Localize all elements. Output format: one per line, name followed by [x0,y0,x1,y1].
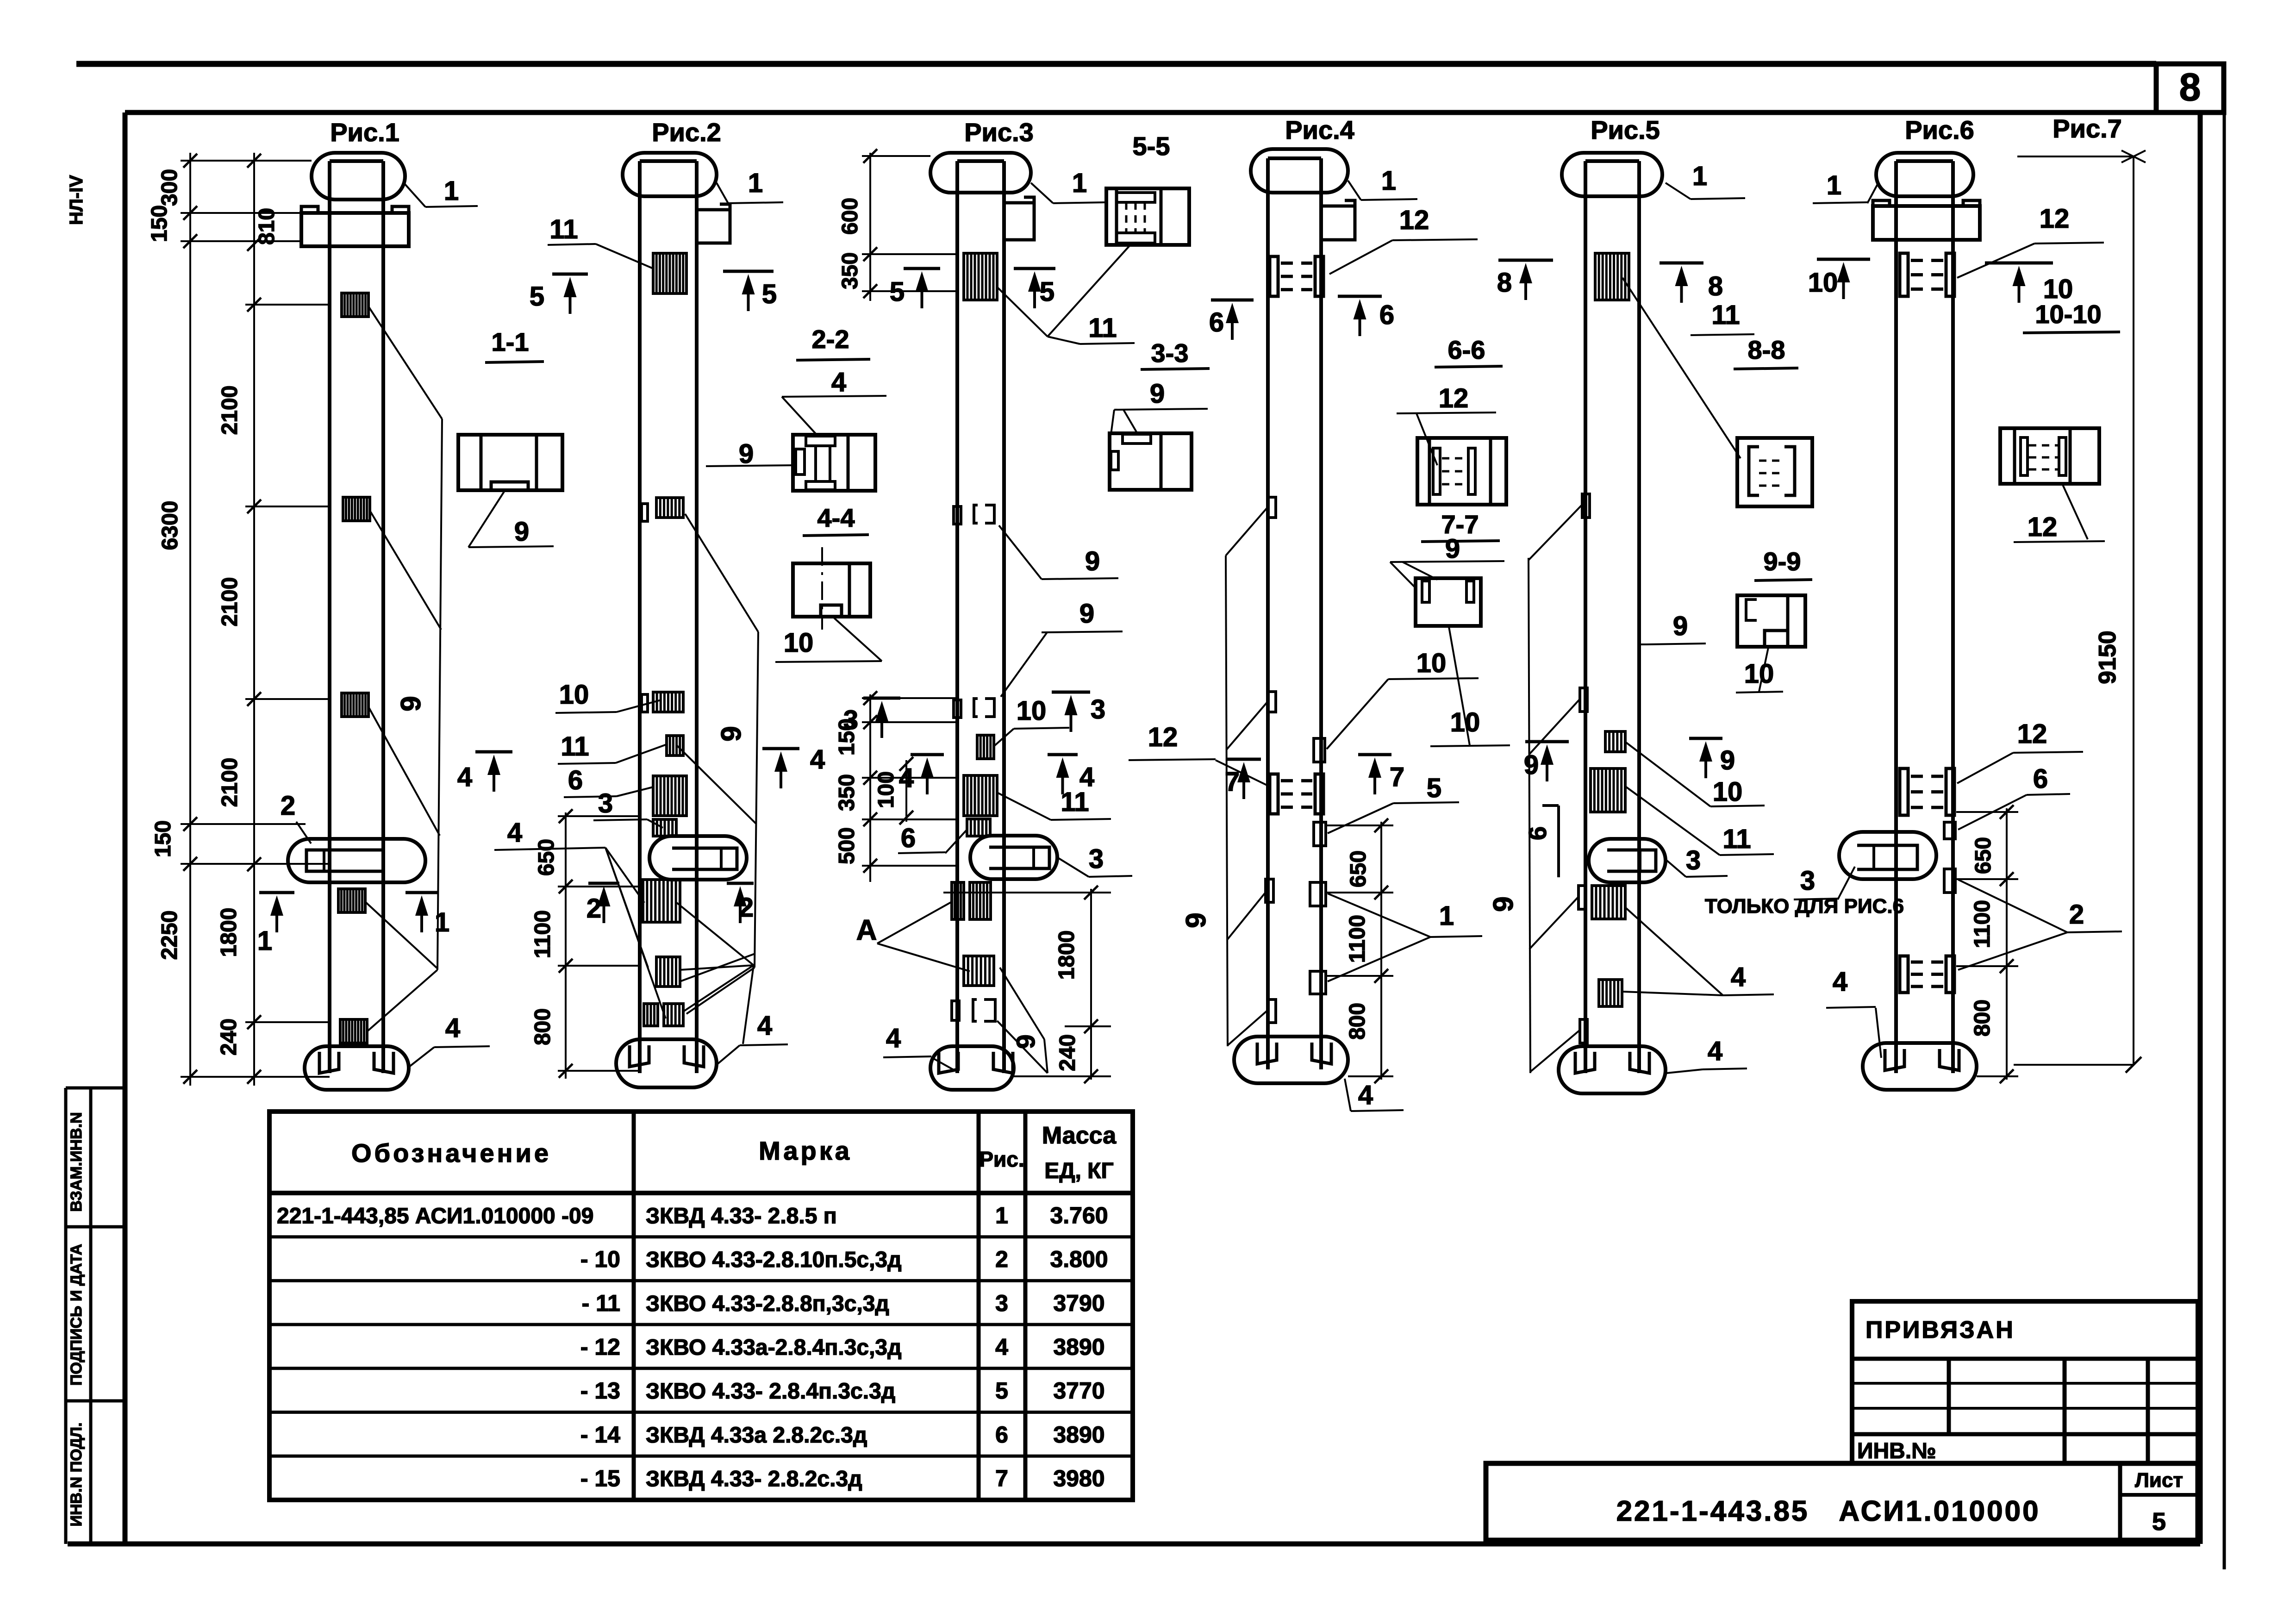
Ris.6 top joint 12 [1900,253,1908,296]
svg-text:100: 100 [874,771,898,808]
svg-text:350: 350 [835,774,859,811]
svg-text:7: 7 [995,1466,1008,1492]
svg-text:4: 4 [886,1023,901,1053]
Ris.5 top lifting loop [1562,153,1662,196]
svg-text:12: 12 [2017,719,2047,749]
overall dimension 9150 [2017,156,2134,157]
svg-text:Лист: Лист [2135,1469,2183,1492]
svg-text:4: 4 [1833,967,1847,997]
svg-text:3790: 3790 [1053,1290,1104,1316]
svg-text:4: 4 [831,367,846,397]
svg-text:9: 9 [1524,750,1539,780]
svg-text:3.800: 3.800 [1050,1246,1108,1272]
svg-text:ЗКВД 4.33- 2.8.2с.3д: ЗКВД 4.33- 2.8.2с.3д [646,1467,862,1492]
svg-text:Марка: Марка [759,1136,852,1165]
column Ris.5 body [1584,161,1587,1073]
svg-text:9: 9 [1150,379,1165,409]
svg-text:1: 1 [435,907,449,937]
Ris.6 middle joint 12 [1900,768,1908,815]
Ris.1 leader bundle 9 [437,419,442,970]
column Ris.2 body [638,161,642,1073]
svg-text:1: 1 [1072,168,1087,198]
Ris.3 lower hatch [964,956,994,986]
svg-text:1: 1 [257,926,272,956]
Ris.3 section marks 3 [863,697,900,700]
svg-text:ЗКВО 4.33-2.8.8п,3с,3д: ЗКВО 4.33-2.8.8п,3с,3д [646,1292,889,1316]
svg-text:9: 9 [716,726,747,741]
svg-text:1: 1 [995,1202,1008,1228]
svg-text:- 13: - 13 [580,1378,620,1404]
section detail 8-8 [1737,438,1812,506]
Ris.3 hatch 11 second [964,775,997,816]
svg-text:3: 3 [598,788,613,818]
Ris.4 top lifting loop [1251,149,1348,193]
Ris.3 top lifting loop [930,153,1031,193]
left marginal column [64,1088,68,1544]
svg-text:- 15: - 15 [580,1466,620,1492]
Ris.1 section marks 1 [259,891,294,894]
svg-text:ЗКВД 4.33а 2.8.2с.3д: ЗКВД 4.33а 2.8.2с.3д [646,1423,867,1448]
Ris.1 left dimension chain A [189,153,191,1086]
Ris.5 hatch 11 top [1595,253,1629,300]
svg-text:240: 240 [217,1018,241,1056]
svg-text:НЛ-IV: НЛ-IV [66,175,87,225]
Ris.5 lower hatch [1599,980,1622,1006]
svg-text:10: 10 [1808,268,1838,298]
Ris.4 right key below joint [1314,822,1326,846]
svg-text:8-8: 8-8 [1748,335,1785,364]
title strip [1486,1463,2198,1540]
svg-text:3890: 3890 [1053,1334,1104,1360]
svg-text:7: 7 [1390,762,1404,792]
svg-text:4: 4 [1358,1080,1373,1110]
svg-text:800: 800 [1345,1003,1370,1040]
svg-text:- 14: - 14 [580,1422,620,1448]
Ris.4 section marks 7 [1227,758,1261,761]
svg-text:10: 10 [559,680,589,710]
svg-text:9: 9 [1720,745,1735,775]
svg-text:2100: 2100 [218,577,242,627]
Ris.4 right keys 1 [1310,882,1326,906]
svg-text:ИНВ.№: ИНВ.№ [1857,1439,1936,1463]
svg-text:9: 9 [739,439,754,469]
svg-text:10: 10 [1744,659,1774,689]
svg-text:2: 2 [281,791,295,821]
Ris.2 mid hatch with key [656,498,683,518]
Ris.2 hatch 6 [653,776,686,816]
svg-text:ЗКВД 4.33- 2.8.5 п: ЗКВД 4.33- 2.8.5 п [646,1204,837,1228]
Ris.1 top corbel [301,213,409,246]
svg-text:11: 11 [561,731,589,762]
Ris.3 bottom bracket row [952,1001,959,1020]
svg-text:1: 1 [748,168,763,198]
svg-text:10: 10 [1416,648,1447,678]
parts table [269,1112,1133,1500]
column Ris.1 body [328,161,331,1073]
Ris.5 section marks 8 [1498,259,1553,262]
svg-text:9: 9 [1445,534,1460,564]
svg-text:800: 800 [530,1008,555,1045]
Ris.2 hatch 11 [653,253,686,294]
section detail 5-5 [1106,188,1189,245]
Ris.5 middle lifting loop [1589,839,1666,882]
svg-text:2100: 2100 [218,386,242,435]
svg-text:1: 1 [1381,166,1396,196]
Ris.2 section mark 4 right [762,747,799,750]
svg-text:12: 12 [2040,204,2070,234]
svg-text:2: 2 [739,893,754,923]
svg-text:9: 9 [1180,912,1211,928]
section detail 3-3 [1110,433,1192,490]
Ris.2 small hatch 11 [667,736,683,756]
Ris.5 below-ring hatch [1592,886,1625,919]
svg-text:11: 11 [549,214,578,244]
column Ris.6 body [1894,161,1898,1073]
svg-text:3-3: 3-3 [1151,338,1189,368]
svg-text:3770: 3770 [1053,1378,1104,1404]
svg-text:Рис.4: Рис.4 [1285,115,1354,144]
svg-text:650: 650 [1971,837,1996,874]
Ris.3 bracket row 1 [954,506,961,524]
svg-text:4: 4 [1731,962,1746,992]
svg-text:2: 2 [2069,899,2084,930]
Ris.4 left keys [1268,497,1276,518]
Ris.2 leader bundle 9 [755,632,758,968]
sheet top border [76,61,2156,67]
svg-text:3: 3 [995,1290,1008,1316]
Ris.4 leader bundle 9 [1226,556,1228,1046]
svg-text:ЗКВО 4.33-2.8.10п.5с,3д: ЗКВО 4.33-2.8.10п.5с,3д [646,1248,902,1272]
Ris.3 section marks 5 [904,267,940,270]
svg-text:5: 5 [1427,773,1441,803]
svg-text:5: 5 [2152,1508,2166,1536]
Ris.2 hatch row 10 [653,692,683,712]
svg-text:8: 8 [2179,65,2201,109]
svg-text:11: 11 [1088,313,1117,343]
svg-text:11: 11 [1711,300,1740,330]
Ris.5 vertical mark 6 [1557,806,1560,877]
svg-text:3890: 3890 [1053,1422,1104,1448]
svg-text:6: 6 [995,1422,1008,1448]
svg-text:4: 4 [757,1011,772,1041]
Ris.2 top corbel [697,204,730,210]
svg-text:1800: 1800 [217,908,241,957]
svg-text:221-1-443.85: 221-1-443.85 [1616,1495,1809,1527]
Ris.2 hatch 3 [653,819,676,836]
svg-text:150: 150 [151,820,175,857]
svg-text:- 12: - 12 [580,1334,620,1360]
outer right margin line [2223,112,2226,1569]
svg-text:6: 6 [2033,764,2048,794]
section detail 2-2 [793,435,875,491]
svg-text:150: 150 [835,718,859,756]
svg-text:3: 3 [1686,845,1701,875]
svg-text:1: 1 [444,176,459,206]
Ris.1 top lifting loop [312,153,405,200]
svg-text:12: 12 [1148,722,1178,752]
svg-text:10: 10 [1017,696,1047,726]
sheet number box 8 [2156,64,2224,112]
Ris.6 right dimension chain [2006,808,2008,1080]
svg-text:Рис.5: Рис.5 [1591,115,1660,144]
svg-text:Обозначение: Обозначение [351,1138,551,1168]
Ris.3 leader bundle 9 bottom [997,1021,1048,1073]
svg-text:А: А [856,914,877,946]
Ris.2 bottom hatch pair [644,1004,658,1026]
svg-text:3: 3 [1089,844,1104,874]
svg-text:Рис.6: Рис.6 [1905,115,1974,144]
svg-text:10: 10 [1713,777,1743,807]
svg-text:ТОЛЬКО ДЛЯ РИС.6: ТОЛЬКО ДЛЯ РИС.6 [1705,895,1904,918]
Ris.6 top corbel [1873,206,1980,240]
Ris.2 middle lifting loop [649,836,747,880]
svg-text:12: 12 [1439,383,1469,413]
column Ris.4 body [1266,158,1270,1069]
svg-text:6: 6 [568,765,583,795]
svg-text:6: 6 [901,823,916,853]
Ris.5 section marks 9 [1525,740,1569,743]
Ris.3 hatch 6 [967,819,990,836]
svg-text:ЗКВО 4.33а-2.8.4п.3с,3д: ЗКВО 4.33а-2.8.4п.3с,3д [646,1335,902,1360]
section detail 7-7 [1416,578,1481,626]
svg-text:11: 11 [1061,787,1089,817]
svg-text:4: 4 [995,1334,1008,1360]
svg-text:10: 10 [784,628,814,658]
svg-text:4: 4 [457,762,472,792]
section detail 9-9 [1737,595,1805,647]
svg-text:ЗКВО 4.33- 2.8.4п.3с.3д: ЗКВО 4.33- 2.8.4п.3с.3д [646,1379,895,1404]
svg-text:240: 240 [1055,1034,1080,1071]
Ris.3 top dimensions 600 350 [869,153,871,301]
section detail 10-10 [2000,428,2099,484]
Ris.6 right keys at ring [1944,869,1955,893]
svg-text:6-6: 6-6 [1448,335,1485,364]
Ris.2 below-ring hatch [643,880,680,922]
Ris.6 middle lifting loop [1839,832,1936,879]
svg-text:221-1-443,85 АСИ1.010000 -09: 221-1-443,85 АСИ1.010000 -09 [277,1204,593,1228]
Ris.2 top lifting loop [623,153,717,196]
Ris.5 hatch 11 second [1591,768,1625,812]
Ris.5 left keys [1582,494,1590,518]
svg-text:150: 150 [147,205,172,242]
Ris.1 middle lifting loop [288,839,425,882]
svg-text:5: 5 [530,281,544,312]
svg-text:- 11: - 11 [582,1290,620,1316]
Ris.5 small hatch 10 [1605,731,1625,752]
section detail 4-4 [793,563,870,617]
svg-text:9: 9 [395,696,426,711]
svg-text:8: 8 [1497,268,1512,298]
svg-text:6: 6 [1524,826,1552,840]
svg-text:4-4: 4-4 [817,503,855,532]
Ris.2 bottom lifting loop [616,1039,717,1087]
svg-text:1: 1 [1827,170,1841,200]
svg-text:Рис.3: Рис.3 [964,118,1034,147]
svg-text:9: 9 [1673,611,1688,641]
Ris.6 bottom lifting loop [1863,1043,1977,1090]
Ris.5 leader bundle 9 [1529,558,1530,1073]
svg-text:1: 1 [1692,161,1707,191]
Ris.1 section mark 4 [475,750,512,754]
Ris.4 right dimension chain [1380,822,1382,1080]
svg-text:ВЗАМ.ИНВ.N: ВЗАМ.ИНВ.N [68,1112,85,1212]
svg-text:ЕД, КГ: ЕД, КГ [1044,1159,1113,1183]
Ris.3 bottom lifting loop [930,1046,1014,1090]
svg-text:800: 800 [1970,999,1995,1037]
Ris.5 bottom lifting loop [1559,1046,1666,1093]
svg-text:350: 350 [838,252,862,289]
svg-text:600: 600 [838,198,862,235]
svg-text:1100: 1100 [530,910,555,958]
svg-text:2-2: 2-2 [812,325,849,354]
svg-text:1100: 1100 [1970,900,1995,948]
svg-text:9: 9 [1079,599,1094,629]
svg-text:12: 12 [2028,512,2058,542]
Ris.6 joint 3rd [1900,956,1908,993]
svg-text:9: 9 [1011,1034,1040,1049]
Ris.3 below-ring hatch [952,882,964,919]
svg-text:ПРИВЯЗАН: ПРИВЯЗАН [1865,1317,2015,1343]
Ris.4 top corbel [1321,200,1355,206]
Ris.1 extension lines [181,160,312,162]
svg-text:3: 3 [1800,866,1815,896]
svg-text:Рис.: Рис. [979,1147,1024,1171]
Ris.3 middle lifting loop [970,836,1057,879]
Ris.3 mid-left dimensions [869,694,871,882]
svg-text:4: 4 [1708,1036,1722,1066]
title block PRIVYAZAN box [1852,1301,2198,1463]
svg-text:5-5: 5-5 [1133,131,1170,161]
svg-text:10-10: 10-10 [2035,300,2101,329]
svg-text:ИНВ.N ПОДЛ.: ИНВ.N ПОДЛ. [68,1423,85,1527]
Ris.3 hatch 11 [964,253,997,300]
svg-text:5: 5 [995,1378,1008,1404]
Ris.4 top joint 12 [1270,256,1278,296]
Ris.6 right key [1944,822,1955,839]
svg-text:2100: 2100 [218,758,242,807]
svg-text:4: 4 [507,818,522,848]
section detail 1-1 [458,435,562,490]
svg-text:7: 7 [1225,767,1240,797]
Ris.3 top corbel [1004,197,1034,203]
svg-text:4: 4 [445,1013,460,1043]
svg-text:9: 9 [514,517,529,547]
Ris.6 top lifting loop [1876,153,1973,196]
Ris.1 left dimension chain B [253,153,255,1086]
svg-text:300: 300 [157,169,182,206]
svg-text:650: 650 [1346,850,1371,887]
svg-text:1800: 1800 [1054,931,1079,980]
svg-text:650: 650 [534,839,559,876]
svg-text:4: 4 [810,744,825,775]
svg-text:Рис.2: Рис.2 [652,118,721,147]
drawing frame [125,110,2224,115]
Ris.4 section marks 6 [1211,299,1254,302]
svg-text:5: 5 [890,277,905,307]
Ris.4 right key upper [1314,738,1325,762]
svg-text:11: 11 [1722,824,1751,854]
Ris.1 stirrup hatches [342,293,368,317]
svg-text:5: 5 [762,279,777,309]
Ris.3 section marks 4 [911,753,944,756]
svg-text:3: 3 [1091,694,1105,725]
svg-text:6: 6 [1209,307,1224,337]
svg-text:9: 9 [1085,546,1100,576]
svg-text:9-9: 9-9 [1764,547,1801,576]
Ris.3 bracket row 2 [954,700,961,718]
Ris.3 right dim 1800 240 [1090,889,1092,1080]
svg-text:ПОДПИСЬ И ДАТА: ПОДПИСЬ И ДАТА [68,1244,85,1386]
svg-text:АСИ1.010000: АСИ1.010000 [1839,1495,2040,1527]
Ris.2 section marks 5 [552,273,588,276]
svg-text:3.760: 3.760 [1050,1202,1108,1228]
Ris.4 middle joint [1270,774,1278,814]
svg-text:6: 6 [1379,300,1394,330]
svg-text:1100: 1100 [1345,915,1370,963]
svg-text:1-1: 1-1 [492,327,529,356]
Ris.1 bottom lifting loop [305,1046,409,1090]
svg-text:1: 1 [1439,901,1454,931]
svg-text:9: 9 [1488,896,1519,912]
Ris.2 left dimension chain [565,812,567,1079]
svg-text:2: 2 [586,893,601,924]
svg-text:2: 2 [995,1246,1008,1272]
svg-text:9150: 9150 [2094,631,2121,684]
svg-text:6300: 6300 [158,501,182,550]
Ris.2 section marks 2 [588,882,619,885]
svg-text:12: 12 [1399,205,1429,235]
section detail 6-6 [1417,438,1506,505]
svg-text:8: 8 [1708,271,1723,301]
svg-text:Масса: Масса [1042,1122,1117,1149]
svg-text:3980: 3980 [1053,1466,1104,1492]
svg-text:Рис.7: Рис.7 [2053,114,2122,143]
svg-text:Рис.1: Рис.1 [330,118,399,147]
column Ris.3 body [955,161,959,1073]
Ris.3 small hatch 10 [977,735,994,759]
svg-text:- 10: - 10 [580,1246,620,1272]
Ris.2 lower hatch [656,957,680,987]
Ris.4 bottom lifting loop [1234,1037,1348,1083]
svg-text:500: 500 [835,827,859,864]
svg-text:2250: 2250 [157,911,182,960]
Ris.6 section marks 10 [1817,258,1870,261]
svg-text:5: 5 [1040,277,1054,307]
